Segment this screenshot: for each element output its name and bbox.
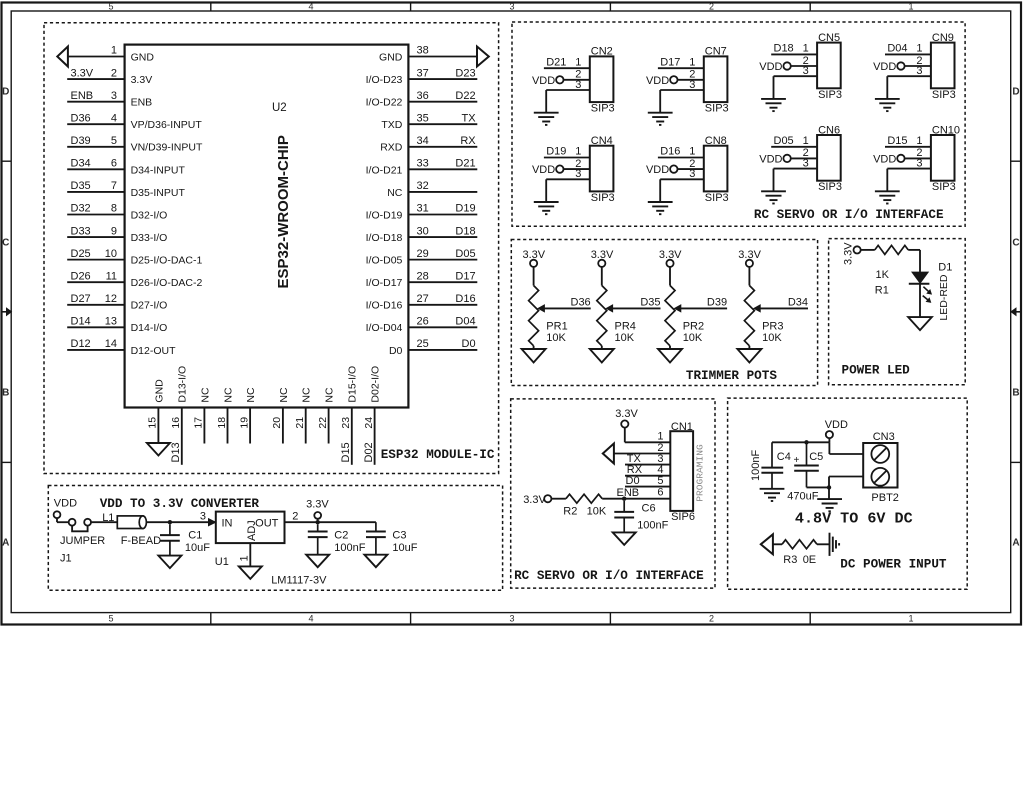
svg-text:1: 1 [689, 146, 695, 158]
CN8 pin 1 wire [658, 157, 704, 159]
junction C1 node [168, 520, 172, 524]
wire LED to ground [919, 284, 921, 317]
svg-text:PBT2: PBT2 [871, 492, 899, 504]
svg-text:NC: NC [278, 387, 290, 403]
CN5 pin 2 wire [791, 65, 817, 67]
svg-text:D25-I/O-DAC-1: D25-I/O-DAC-1 [131, 255, 203, 267]
PR1 wiper arrow [544, 307, 591, 309]
svg-text:DC POWER INPUT: DC POWER INPUT [840, 556, 947, 571]
svg-text:D0: D0 [462, 338, 476, 350]
svg-text:D13-I/O: D13-I/O [177, 366, 189, 403]
ground symbol power led [908, 317, 932, 330]
svg-text:3: 3 [803, 65, 809, 77]
U2 pin 34 wire [408, 146, 477, 148]
trimmer PR4 resistor [597, 286, 607, 346]
svg-text:18: 18 [216, 417, 228, 429]
svg-text:7: 7 [111, 180, 117, 192]
ground symbol PR2 [658, 349, 682, 363]
svg-text:1: 1 [916, 43, 922, 55]
trimmer PR3 resistor [744, 286, 754, 346]
node VDD terminal CN9 [897, 62, 904, 69]
wire 3.3V to PR1 [533, 267, 535, 286]
U2 pin 38 wire [408, 56, 477, 58]
svg-text:GND: GND [379, 51, 403, 63]
svg-text:D33: D33 [71, 225, 91, 237]
svg-text:3.3V: 3.3V [843, 242, 855, 265]
svg-text:CN4: CN4 [591, 135, 613, 147]
U2 pin 36 wire [408, 101, 477, 103]
svg-text:I/O-D23: I/O-D23 [366, 74, 403, 86]
svg-text:SIP3: SIP3 [705, 192, 729, 204]
svg-text:VDD: VDD [646, 75, 669, 87]
CN2 pin 2 wire [563, 79, 589, 81]
capacitor C5 electrolytic [806, 442, 808, 465]
svg-text:PR2: PR2 [683, 321, 704, 333]
svg-text:SIP3: SIP3 [818, 89, 842, 101]
wire PR4 to ground [601, 346, 603, 349]
trimmer pots dashed box [511, 240, 817, 386]
ground symbol C1 [158, 556, 181, 569]
U2 pin 19 wire [249, 408, 251, 444]
regulator U1 LM1117-3V body [216, 512, 285, 543]
svg-text:D34-INPUT: D34-INPUT [131, 164, 186, 176]
junction C5 top [804, 440, 808, 444]
svg-text:10K: 10K [546, 332, 566, 344]
U2 pin 11 wire [67, 281, 124, 283]
connector CN4 body [590, 146, 614, 192]
capacitor C3 [375, 522, 377, 531]
3.3V terminal PR3 [746, 260, 753, 267]
svg-text:B: B [2, 388, 9, 399]
node VDD terminal CN5 [783, 62, 790, 69]
svg-text:3: 3 [509, 614, 514, 624]
CN9 pin 3 wire [887, 75, 931, 77]
svg-text:LM1117-3V: LM1117-3V [271, 575, 327, 587]
CN5 pin 3 wire [774, 75, 818, 77]
wire PR1 to ground [533, 346, 535, 349]
connector CN6 body [817, 135, 841, 181]
ground symbol CN7 [648, 112, 673, 114]
CN2 pin 1 wire [544, 67, 590, 69]
ground symbol CN9 [875, 98, 900, 100]
svg-text:D18: D18 [455, 225, 475, 237]
ground symbol DC supply [817, 498, 842, 500]
svg-text:NC: NC [324, 387, 336, 403]
svg-text:470uF: 470uF [787, 491, 818, 503]
svg-text:D25: D25 [71, 248, 91, 260]
svg-text:I/O-D05: I/O-D05 [366, 255, 403, 267]
svg-text:1: 1 [689, 56, 695, 68]
svg-text:ESP32 MODULE-IC: ESP32 MODULE-IC [381, 447, 495, 462]
VDD terminal DC [826, 431, 833, 438]
U2 pin 30 wire [408, 236, 477, 238]
svg-text:RC SERVO OR I/O INTERFACE: RC SERVO OR I/O INTERFACE [514, 568, 704, 583]
ground arrow port pin 38 [477, 47, 489, 67]
svg-text:NC: NC [245, 387, 257, 403]
3.3V terminal PR1 [530, 260, 537, 267]
node 3.3V terminal R2 [544, 495, 551, 502]
svg-text:D19: D19 [546, 146, 566, 158]
U2 pin 18 wire [227, 408, 229, 444]
wire 3.3V to PR2 [669, 267, 671, 286]
svg-text:1: 1 [916, 135, 922, 147]
RC servo interface dashed box [512, 22, 965, 226]
node VDD terminal CN7 [670, 76, 677, 83]
svg-text:1: 1 [575, 146, 581, 158]
svg-text:RC SERVO OR I/O INTERFACE: RC SERVO OR I/O INTERFACE [754, 207, 944, 222]
svg-text:3: 3 [916, 157, 922, 169]
svg-text:3.3V: 3.3V [131, 74, 153, 86]
svg-text:+: + [794, 455, 800, 466]
U2 pin 20 wire [282, 408, 284, 444]
svg-text:D39: D39 [71, 135, 91, 147]
VDD terminal [54, 511, 61, 518]
CN10 pin 3 wire [887, 168, 931, 170]
U2 pin 23 wire [351, 408, 353, 465]
svg-text:100nF: 100nF [750, 450, 762, 481]
svg-text:33: 33 [417, 158, 429, 170]
ground symbol rotated DC input [829, 533, 831, 556]
U2 pin 15 wire [157, 408, 159, 444]
ground symbol C2 [306, 555, 329, 568]
svg-text:4.8V TO 6V DC: 4.8V TO 6V DC [795, 510, 913, 528]
CN1 pin 3 wire TX [625, 464, 670, 466]
svg-text:VDD: VDD [54, 497, 77, 509]
CN8 pin 2 wire [677, 168, 703, 170]
VDD to 3.3V converter dashed box [48, 486, 502, 591]
svg-text:5: 5 [111, 135, 117, 147]
3.3V terminal PR2 [666, 260, 673, 267]
svg-text:ENB: ENB [617, 487, 640, 499]
svg-text:LED-RED: LED-RED [938, 274, 950, 321]
svg-text:D32: D32 [71, 203, 91, 215]
ground symbol C3 [364, 555, 387, 568]
svg-text:10K: 10K [762, 332, 782, 344]
ground symbol CN5 [761, 98, 786, 100]
trimmer PR2 resistor [665, 286, 675, 346]
CN4 pin 1 wire [544, 157, 590, 159]
node VDD terminal CN4 [556, 165, 563, 172]
ground symbol C6 [613, 532, 636, 545]
svg-text:I/O-D21: I/O-D21 [366, 164, 403, 176]
svg-text:3: 3 [575, 79, 581, 91]
svg-text:D15-I/O: D15-I/O [347, 366, 359, 403]
connector CN1 body [670, 431, 693, 511]
U2 pin 16 wire [181, 408, 183, 465]
node VDD terminal CN10 [897, 155, 904, 162]
U2 pin 17 wire [203, 408, 205, 444]
svg-text:RX: RX [460, 135, 476, 147]
ground symbol U1 ADJ [239, 566, 262, 579]
svg-text:20: 20 [271, 417, 283, 429]
svg-text:VDD: VDD [646, 164, 669, 176]
3.3V terminal CN1 [621, 420, 628, 427]
svg-text:23: 23 [340, 417, 352, 429]
svg-text:VDD: VDD [759, 61, 782, 73]
U2 pin 29 wire [408, 259, 477, 261]
frame column ticks [210, 3, 212, 12]
svg-text:10K: 10K [683, 332, 703, 344]
U2 pin 24 wire [374, 408, 376, 465]
U2 pin 35 wire [408, 123, 477, 125]
CN7 pin 2 wire [677, 79, 703, 81]
svg-text:PR4: PR4 [615, 321, 636, 333]
svg-text:29: 29 [417, 248, 429, 260]
svg-text:CN6: CN6 [818, 124, 840, 136]
frame centre arrow right [1016, 311, 1021, 313]
svg-text:R1: R1 [875, 285, 889, 297]
svg-text:C2: C2 [334, 530, 348, 542]
svg-text:I/O-D17: I/O-D17 [366, 277, 403, 289]
U2 pin 1 wire [68, 56, 125, 58]
svg-text:2: 2 [709, 1, 714, 11]
svg-text:38: 38 [417, 45, 429, 57]
jumper J1 link [72, 526, 88, 532]
svg-text:1: 1 [111, 45, 117, 57]
svg-text:A: A [2, 538, 9, 549]
U2 pin 27 wire [408, 304, 477, 306]
U2 pin 9 wire [67, 236, 124, 238]
svg-text:I/O-D16: I/O-D16 [366, 300, 403, 312]
svg-text:D04: D04 [887, 43, 907, 55]
wire U1 ADJ to ground [249, 543, 251, 566]
svg-text:19: 19 [238, 417, 250, 429]
U2 pin 12 wire [67, 304, 124, 306]
svg-text:1: 1 [803, 43, 809, 55]
svg-text:D21: D21 [455, 158, 475, 170]
svg-text:D36: D36 [571, 296, 591, 308]
svg-text:24: 24 [363, 417, 375, 429]
svg-text:U2: U2 [272, 102, 287, 114]
svg-text:22: 22 [317, 417, 329, 429]
svg-text:1K: 1K [876, 269, 890, 281]
svg-text:2: 2 [292, 511, 298, 523]
svg-text:I/O-D18: I/O-D18 [366, 232, 403, 244]
svg-text:NC: NC [301, 387, 313, 403]
svg-text:VDD: VDD [532, 75, 555, 87]
svg-text:3: 3 [803, 157, 809, 169]
svg-text:10K: 10K [615, 332, 635, 344]
wire arrow to R3 [773, 543, 782, 545]
svg-text:D27-I/O: D27-I/O [131, 300, 168, 312]
inductor L1 ferrite bead [117, 516, 143, 529]
3.3V terminal PR4 [598, 260, 605, 267]
svg-text:1: 1 [803, 135, 809, 147]
ground symbol CN10 [875, 190, 900, 192]
resistor R1 [875, 245, 908, 254]
svg-text:VDD: VDD [873, 61, 896, 73]
svg-text:ENB: ENB [131, 97, 153, 109]
svg-text:I/O-D22: I/O-D22 [366, 97, 403, 109]
svg-text:1: 1 [239, 555, 251, 561]
svg-text:CN10: CN10 [932, 124, 960, 136]
CN3 screw terminal 2 [871, 468, 889, 486]
svg-text:GND: GND [131, 51, 155, 63]
svg-text:D21: D21 [546, 56, 566, 68]
svg-text:4: 4 [308, 614, 313, 624]
svg-text:I/O-D19: I/O-D19 [366, 209, 403, 221]
CN8 pin 3 wire [660, 178, 704, 180]
svg-text:D02-I/O: D02-I/O [370, 366, 382, 403]
svg-text:27: 27 [417, 293, 429, 305]
svg-text:D35: D35 [640, 296, 660, 308]
wire VDD to jumper [56, 518, 58, 522]
svg-text:10K: 10K [587, 506, 607, 518]
svg-text:1: 1 [908, 1, 913, 11]
svg-text:14: 14 [105, 338, 117, 350]
svg-text:IN: IN [222, 518, 233, 530]
svg-text:8: 8 [111, 203, 117, 215]
svg-text:NC: NC [222, 387, 234, 403]
svg-text:D17: D17 [455, 270, 475, 282]
svg-text:J1: J1 [60, 553, 72, 565]
op-amp U2 ESP32-WROOM-CHIP body [125, 45, 409, 408]
PR3 wiper arrow [760, 307, 808, 309]
svg-text:32: 32 [417, 180, 429, 192]
svg-text:3.3V: 3.3V [615, 408, 638, 420]
svg-text:D02: D02 [363, 442, 375, 462]
U2 pin 3 wire [67, 101, 124, 103]
svg-text:D14-I/O: D14-I/O [131, 322, 168, 334]
svg-text:VDD TO 3.3V CONVERTER: VDD TO 3.3V CONVERTER [100, 496, 260, 511]
CN4 pin 2 wire [563, 168, 589, 170]
svg-text:CN2: CN2 [591, 46, 613, 58]
svg-text:28: 28 [417, 270, 429, 282]
ground symbol PR1 [522, 349, 546, 363]
svg-text:CN5: CN5 [818, 32, 840, 44]
node VDD terminal CN8 [670, 165, 677, 172]
svg-text:SIP3: SIP3 [932, 181, 956, 193]
svg-text:NC: NC [199, 387, 211, 403]
connector CN2 body [590, 56, 614, 102]
svg-text:100nF: 100nF [334, 542, 365, 554]
svg-text:C: C [2, 238, 9, 249]
svg-text:VDD: VDD [759, 153, 782, 165]
svg-text:D13: D13 [170, 442, 182, 462]
wire 3.3V to R1 [861, 249, 875, 251]
CN6 pin 3 wire [774, 168, 818, 170]
svg-text:10: 10 [105, 248, 117, 260]
wire R1 to LED [908, 249, 920, 251]
svg-text:OUT: OUT [255, 518, 279, 530]
svg-text:ESP32-WROOM-CHIP: ESP32-WROOM-CHIP [275, 135, 292, 288]
svg-text:D12-OUT: D12-OUT [131, 345, 177, 357]
resistor R2 [566, 494, 602, 503]
svg-text:12: 12 [105, 293, 117, 305]
ground symbol C4 [760, 488, 785, 490]
U2 pin 4 wire [67, 123, 124, 125]
svg-text:SIP3: SIP3 [591, 192, 615, 204]
svg-text:PR1: PR1 [546, 321, 567, 333]
CN1 pin 6 wire ENB [602, 498, 670, 500]
wire jumper to L1 [91, 521, 117, 523]
connector CN9 body [931, 43, 955, 89]
svg-text:3.3V: 3.3V [523, 494, 546, 506]
svg-text:3: 3 [111, 90, 117, 102]
svg-text:D: D [2, 87, 9, 98]
node VDD terminal CN2 [556, 76, 563, 83]
U2 pin 37 wire [408, 78, 477, 80]
CN1 pin 4 wire RX [625, 475, 670, 477]
svg-text:D05: D05 [455, 248, 475, 260]
svg-text:D1: D1 [938, 261, 952, 273]
svg-text:R3: R3 [783, 554, 797, 566]
svg-text:1: 1 [575, 56, 581, 68]
svg-text:D05: D05 [774, 135, 794, 147]
svg-text:2: 2 [709, 614, 714, 624]
capacitor C6 [623, 501, 625, 512]
svg-text:1: 1 [908, 614, 913, 624]
trimmer PR1 resistor [529, 286, 539, 346]
svg-text:17: 17 [193, 417, 205, 429]
svg-text:SIP3: SIP3 [705, 103, 729, 115]
svg-text:15: 15 [147, 417, 159, 429]
svg-text:D26-I/O-DAC-2: D26-I/O-DAC-2 [131, 277, 203, 289]
svg-text:D15: D15 [887, 135, 907, 147]
svg-text:0E: 0E [803, 554, 816, 566]
svg-text:CN3: CN3 [873, 431, 895, 443]
ground symbol CN2 [534, 112, 559, 114]
jumper J1 pins [69, 519, 76, 526]
CN1 pin 1 wire [624, 428, 626, 443]
svg-text:3: 3 [689, 168, 695, 180]
svg-text:D0: D0 [626, 475, 640, 487]
CN1 pin 2 wire [614, 453, 670, 455]
svg-text:5: 5 [657, 475, 663, 487]
junction ground node [827, 485, 831, 489]
ground symbol CN8 [648, 201, 673, 203]
frame row ticks [2, 160, 12, 162]
capacitor C1 [169, 524, 171, 535]
ground arrow port DC input [761, 534, 773, 554]
svg-text:CN8: CN8 [705, 135, 727, 147]
PR4 wiper arrow [612, 307, 660, 309]
U1 input arrow [209, 519, 216, 526]
svg-text:9: 9 [111, 225, 117, 237]
svg-text:D26: D26 [71, 270, 91, 282]
U2 pin 25 wire [408, 349, 477, 351]
ground symbol pin 15 [147, 443, 170, 456]
svg-text:VDD: VDD [825, 419, 848, 431]
svg-text:11: 11 [106, 270, 117, 282]
svg-text:D16: D16 [660, 146, 680, 158]
svg-text:D32-I/O: D32-I/O [131, 209, 168, 221]
svg-text:C4: C4 [777, 451, 791, 463]
svg-text:3.3V: 3.3V [71, 67, 94, 79]
connector CN3 body [863, 443, 897, 488]
svg-text:D23: D23 [455, 67, 475, 79]
svg-text:SIP3: SIP3 [932, 89, 956, 101]
power LED dashed box [829, 239, 966, 385]
svg-text:A: A [1012, 538, 1019, 549]
wire 3.3V to R2 [551, 498, 566, 500]
svg-text:D: D [1012, 87, 1019, 98]
CN6 pin 1 wire [771, 146, 817, 148]
wire to ground DC [828, 487, 830, 499]
svg-text:SIP6: SIP6 [671, 511, 695, 523]
svg-text:3: 3 [509, 1, 514, 11]
U2 pin 8 wire [67, 213, 124, 215]
svg-text:SIP3: SIP3 [591, 103, 615, 115]
svg-text:D27: D27 [71, 293, 91, 305]
ESP32 module dashed box [44, 23, 499, 474]
node 3.3V terminal power led [854, 246, 861, 253]
CN1 pin 5 wire D0 [625, 486, 670, 488]
svg-text:C5: C5 [809, 451, 823, 463]
svg-text:D34: D34 [788, 296, 808, 308]
U2 pin 28 wire [408, 281, 477, 283]
svg-text:C6: C6 [642, 503, 656, 515]
